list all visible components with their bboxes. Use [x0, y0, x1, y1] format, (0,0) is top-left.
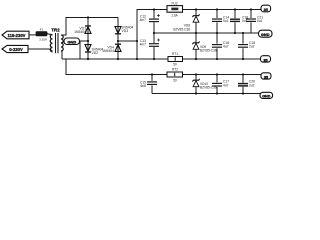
svg-text:0u1: 0u1 [257, 19, 263, 23]
label GND2 [260, 92, 273, 98]
svg-text:VD2: VD2 [92, 51, 99, 55]
wire bottom rail [62, 58, 168, 60]
junction dots [87, 8, 252, 94]
junction (235,33) [234, 32, 236, 34]
svg-text:GND: GND [67, 39, 76, 44]
svg-text:115-230V: 115-230V [8, 33, 26, 38]
junction (196,9.5) [195, 8, 197, 10]
svg-text:GND: GND [262, 95, 271, 99]
connector X2 0-230V [2, 45, 28, 52]
svg-text:BZV85-C36: BZV85-C36 [200, 49, 217, 53]
svg-text:2u2: 2u2 [249, 83, 255, 87]
svg-text:TR2: TR2 [51, 27, 60, 32]
wire [183, 74, 262, 76]
wire secondary top [61, 18, 118, 36]
capacitor C20 [238, 75, 255, 94]
capacitor C14 [212, 10, 229, 34]
junction (217,74.5) [216, 73, 218, 75]
junction (88,17.5) [87, 16, 89, 18]
junction (154,9.5) [153, 8, 155, 10]
wire [136, 41, 138, 59]
wire bridge left column [87, 18, 89, 60]
svg-text:1.6A: 1.6A [171, 14, 178, 18]
junction (235,9.5) [234, 8, 236, 10]
wire top rail [183, 9, 262, 11]
capacitor C18a [230, 10, 248, 34]
wire bridge right column [117, 18, 119, 60]
svg-text:35: 35 [263, 58, 267, 62]
diode VD2 [85, 45, 103, 55]
svg-text:RT2: RT2 [172, 68, 178, 72]
junction (243,33) [242, 32, 244, 34]
wire bridge + out [118, 10, 167, 42]
wire gnd rail [154, 32, 259, 34]
junction (152,74.5) [151, 73, 153, 75]
svg-text:2u2: 2u2 [249, 45, 255, 49]
junction (154,33) [153, 32, 155, 34]
diode VD3 [115, 26, 133, 34]
junction (118,41) [117, 40, 119, 42]
svg-text:F1: F1 [40, 28, 44, 32]
wire [29, 34, 36, 36]
wire secondary center tap [61, 41, 64, 43]
junction (154,59) [153, 58, 155, 60]
label -35V b [261, 73, 271, 80]
junction (196,93.5) [195, 92, 197, 94]
wire secondary bottom [61, 51, 62, 59]
svg-text:4u7: 4u7 [223, 83, 229, 87]
transformer TR2 [50, 27, 63, 53]
capacitor C16 [212, 33, 229, 59]
thermistor RT2 [167, 68, 183, 83]
svg-text:1N5404: 1N5404 [102, 49, 114, 53]
junction (217,93.5) [216, 92, 218, 94]
junction (88,41) [87, 40, 89, 42]
thermistor RT1 [168, 52, 183, 66]
svg-text:FU2: FU2 [171, 2, 177, 6]
svg-text:VD3: VD3 [122, 29, 129, 33]
capacitor C13 [140, 39, 160, 47]
wire [28, 49, 53, 51]
label +35V [261, 5, 271, 12]
svg-text:3.15A: 3.15A [39, 38, 47, 42]
zener VD10 [192, 75, 216, 94]
label GND [259, 30, 273, 37]
wire [183, 58, 262, 60]
junction (217,9.5) [216, 8, 218, 10]
svg-text:BZV85-C36: BZV85-C36 [173, 27, 190, 31]
capacitor C21 [246, 10, 263, 34]
svg-text:35: 35 [264, 75, 268, 79]
svg-text:RT1: RT1 [172, 52, 178, 56]
svg-text:50: 50 [173, 79, 177, 83]
junction (217,59) [216, 58, 218, 60]
junction (217,33) [216, 32, 218, 34]
svg-text:50: 50 [173, 62, 177, 66]
svg-text:1N5404: 1N5404 [74, 30, 86, 34]
zener VD9 [192, 33, 216, 59]
svg-text:4m7: 4m7 [140, 18, 147, 22]
svg-text:0u1: 0u1 [223, 19, 229, 23]
junction (137,41) [136, 40, 138, 42]
junction (118,59) [117, 58, 119, 60]
capacitor C15 bottom-left [140, 75, 157, 94]
wire to lower rail [66, 59, 167, 75]
wire C12/C13 column [153, 10, 155, 19]
label GND [64, 38, 80, 45]
wire gnd to bridge [80, 40, 89, 42]
svg-text:35: 35 [264, 8, 268, 12]
capacitor C18 [238, 33, 255, 59]
svg-text:GND: GND [261, 32, 270, 37]
wire bottom gnd rail [152, 93, 261, 95]
wire [79, 41, 81, 59]
capacitor C12 [140, 14, 160, 22]
zener VD8 [173, 10, 199, 34]
junction (196,33) [195, 32, 197, 34]
connector X1 115-230V [2, 31, 29, 39]
svg-text:6n8: 6n8 [140, 84, 146, 88]
junction (88,59) [87, 58, 89, 60]
junction (196,59) [195, 58, 197, 60]
fuse F1 [36, 28, 53, 42]
fuse FU2 [167, 2, 183, 18]
junction (243,74.5) [242, 73, 244, 75]
junction (251,9.5) [250, 8, 252, 10]
svg-text:4u7: 4u7 [223, 45, 229, 49]
svg-text:0-230V: 0-230V [9, 47, 23, 52]
junction (243,59) [242, 58, 244, 60]
junction (137,59) [136, 58, 138, 60]
junction (243,93.5) [242, 92, 244, 94]
junction (196,74.5) [195, 73, 197, 75]
diode VD4 [102, 44, 121, 53]
label -35V [261, 56, 271, 63]
capacitor C17 [212, 75, 229, 94]
diode VD1 [74, 26, 91, 34]
svg-text:4m7: 4m7 [140, 43, 147, 47]
